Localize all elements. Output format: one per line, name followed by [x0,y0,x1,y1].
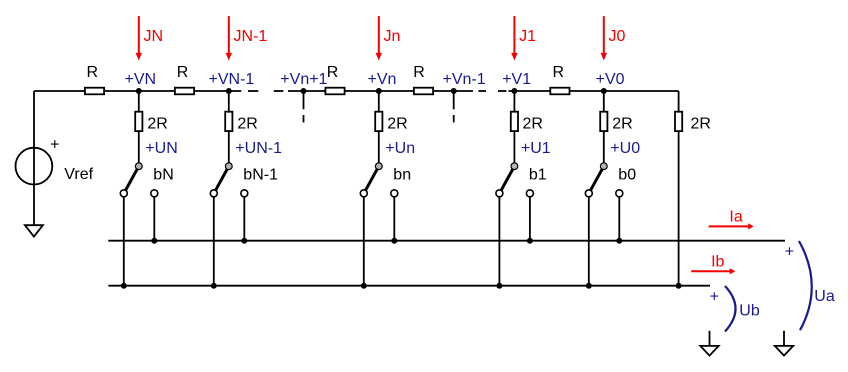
svg-text:+UN: +UN [145,140,177,157]
svg-text:2R: 2R [612,116,632,133]
svg-text:R: R [177,64,189,81]
svg-text:+UN-1: +UN-1 [235,140,282,157]
svg-text:bN-1: bN-1 [243,167,278,184]
svg-text:Ib: Ib [711,254,724,271]
svg-text:Ua: Ua [814,288,835,305]
svg-text:+V1: +V1 [502,71,531,88]
svg-text:+VN-1: +VN-1 [209,71,255,88]
svg-text:bn: bn [393,167,411,184]
svg-text:JN: JN [144,28,164,45]
svg-text:Ia: Ia [729,209,742,226]
svg-text:+: + [710,289,719,306]
svg-text:b1: b1 [529,167,547,184]
svg-text:+: + [50,137,59,154]
svg-text:2R: 2R [523,116,543,133]
svg-text:2R: 2R [147,116,167,133]
svg-text:2R: 2R [691,116,711,133]
svg-text:J1: J1 [519,28,536,45]
svg-text:R: R [87,64,99,81]
svg-text:+: + [785,243,794,260]
svg-text:J0: J0 [609,28,626,45]
svg-text:Ub: Ub [739,303,760,320]
svg-text:2R: 2R [237,116,257,133]
svg-text:+U0: +U0 [610,140,640,157]
svg-text:bN: bN [153,167,173,184]
svg-text:+Vn+1: +Vn+1 [280,71,327,88]
svg-text:R: R [327,64,339,81]
svg-text:b0: b0 [618,167,636,184]
svg-text:+Un: +Un [385,140,415,157]
svg-text:R: R [553,64,565,81]
svg-text:R: R [413,64,425,81]
svg-text:+VN: +VN [125,71,157,88]
svg-text:2R: 2R [387,116,407,133]
svg-text:Vref: Vref [64,166,93,183]
svg-text:Jn: Jn [384,28,401,45]
svg-text:+V0: +V0 [596,71,625,88]
svg-text:JN-1: JN-1 [234,28,268,45]
svg-text:+Vn: +Vn [368,71,397,88]
svg-text:+Vn-1: +Vn-1 [443,71,486,88]
svg-text:+U1: +U1 [521,140,551,157]
